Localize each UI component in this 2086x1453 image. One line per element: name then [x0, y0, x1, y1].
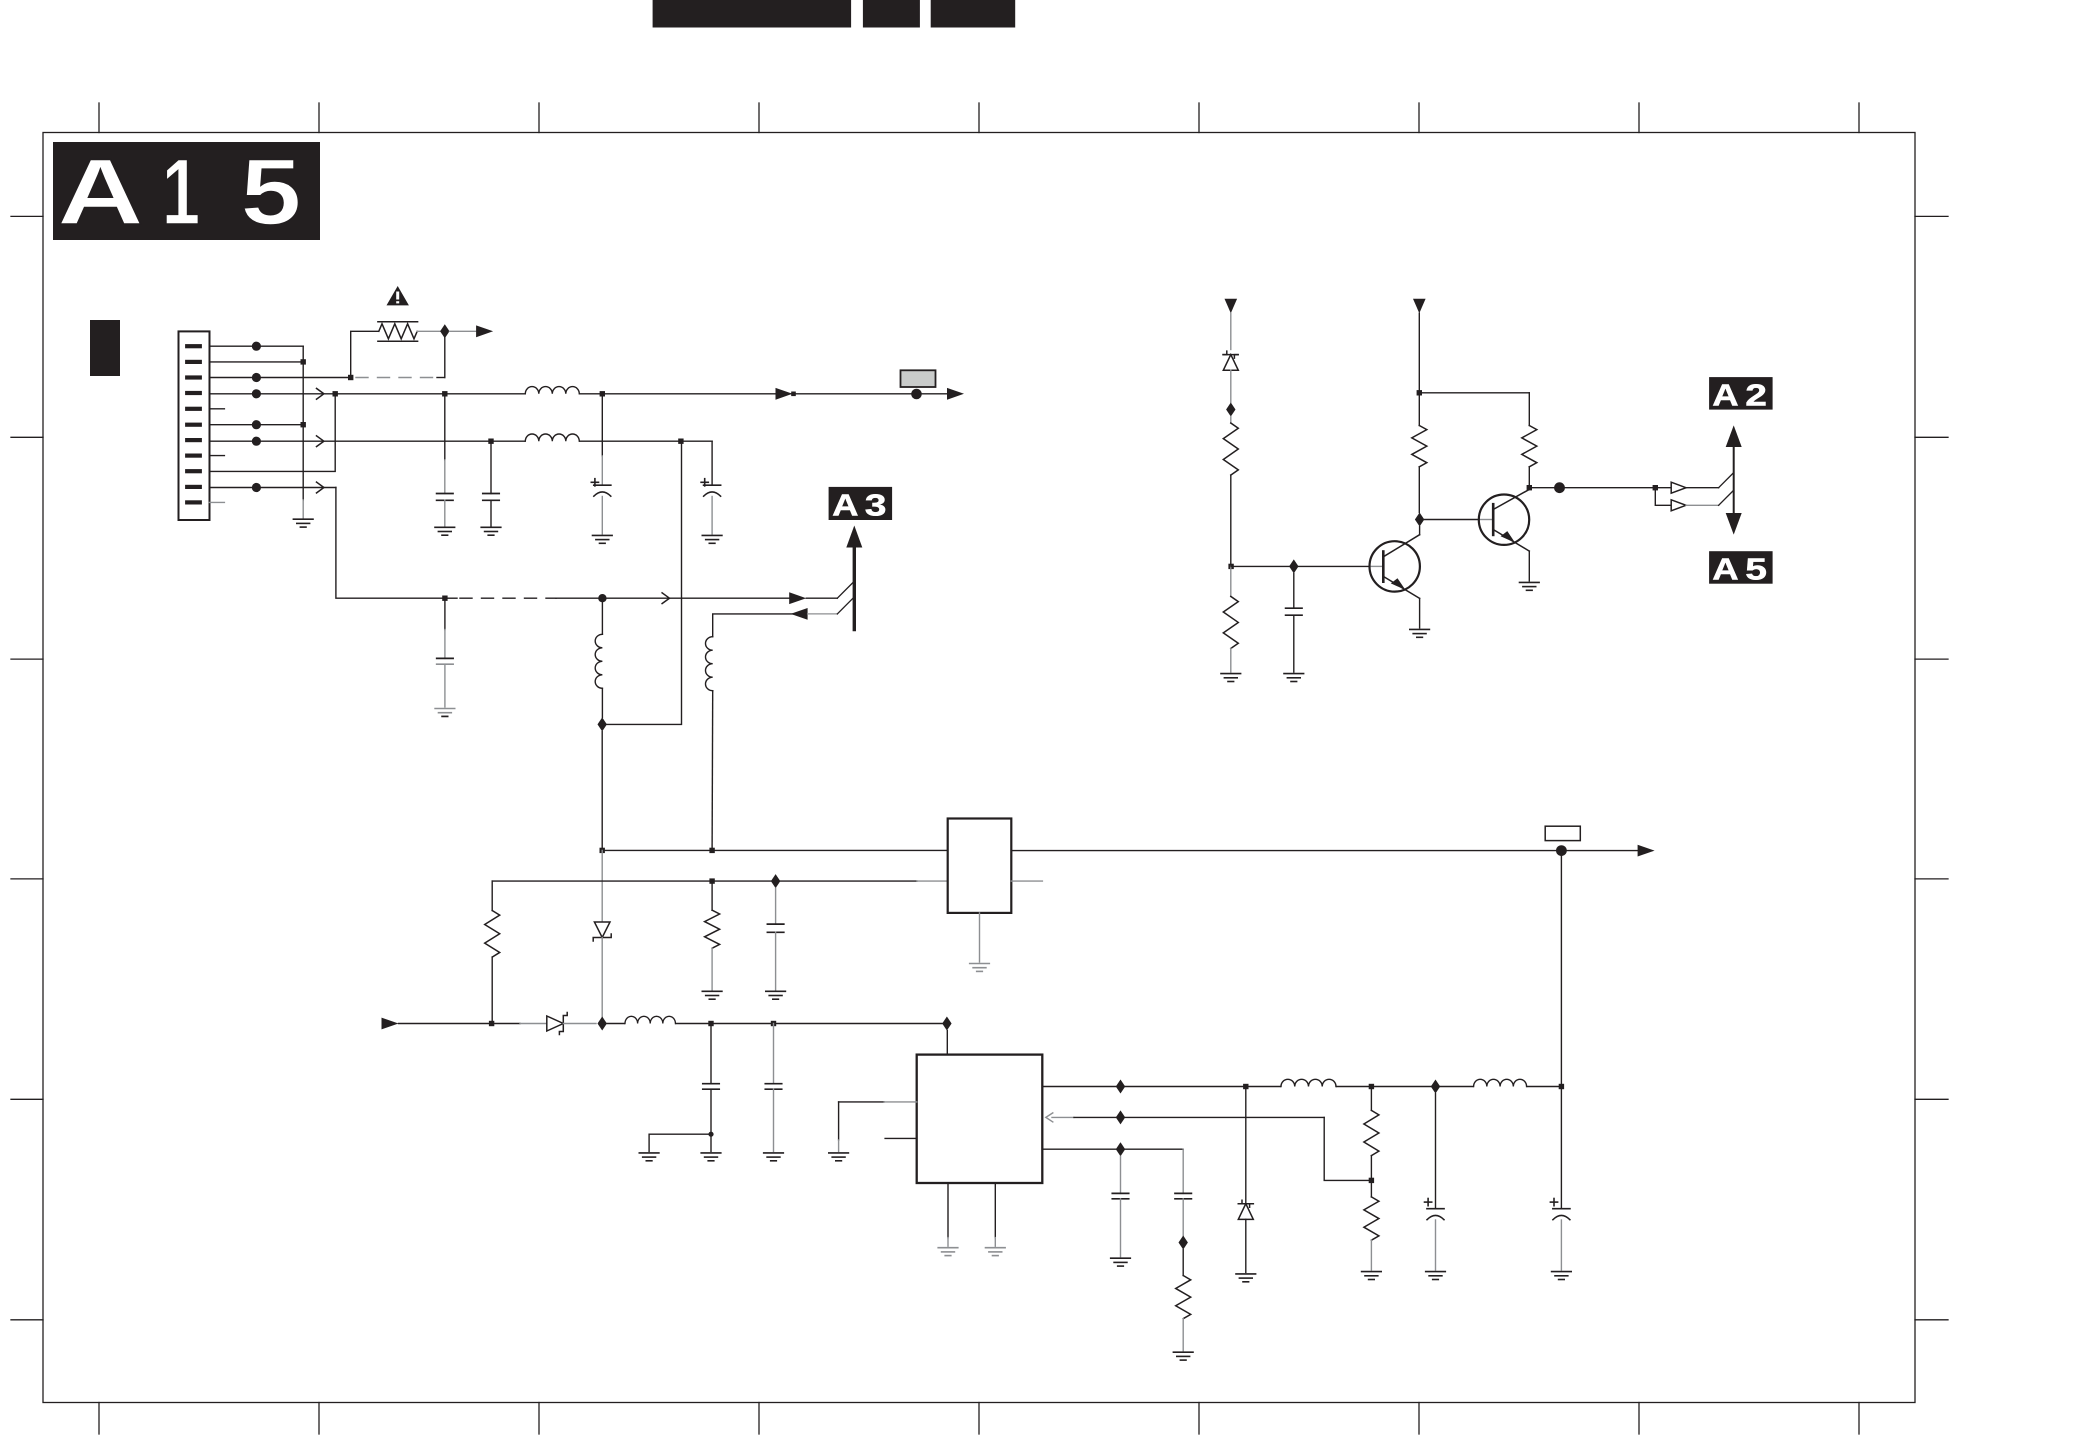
junction dot row A end	[911, 389, 922, 400]
arrow up to A3	[846, 526, 862, 548]
resistor R4	[1364, 1197, 1379, 1270]
wire U1 output drop	[1560, 851, 1562, 1087]
ground bus gray tail	[302, 500, 304, 518]
arrow row D to A3	[789, 592, 806, 604]
title bar redaction block 3	[931, 0, 1016, 28]
ground U2 lead1	[938, 1248, 958, 1256]
junction row B / C3	[488, 439, 493, 444]
wire pin5 stub	[210, 408, 225, 410]
arrow down to A5	[1726, 513, 1742, 535]
ground C10	[1552, 1272, 1572, 1280]
junction U1 pin2 row / R2	[709, 878, 714, 883]
ground Q2 emitter	[1520, 582, 1540, 590]
inductor L5	[625, 1022, 676, 1025]
ground C1	[435, 527, 455, 535]
U2 left pin with ground drop	[839, 1102, 917, 1152]
wire riser to fusible resistor left	[351, 331, 379, 377]
inductor L4 vertical	[706, 637, 713, 851]
resistor R9 Q2 collector load	[1522, 393, 1537, 488]
ground R5	[1173, 1352, 1193, 1360]
ground C13	[1284, 674, 1304, 682]
resistor R5	[1176, 1250, 1191, 1351]
border tick marks left	[11, 216, 43, 1319]
transistor Q1	[1370, 527, 1420, 628]
open arrow lower A2A5	[1671, 500, 1686, 511]
junction diamond C12/R5	[1179, 1236, 1188, 1250]
inductor L2 row B	[525, 440, 579, 443]
electrolytic C4 row B	[701, 479, 720, 534]
junction diamond pin1 a	[1116, 1080, 1125, 1094]
junction dot U1 output	[1556, 845, 1567, 856]
wire pin8 stub	[210, 455, 225, 457]
wire row B corner down to C4	[711, 441, 713, 485]
wire diamond to arrow	[450, 330, 477, 332]
lower branch wire	[1655, 488, 1671, 506]
ground C7 left	[639, 1153, 659, 1161]
arrow fusible output	[476, 325, 493, 337]
wire lower to ramp	[1686, 504, 1719, 506]
fusible resistor R1	[378, 322, 418, 341]
junction row A arrow tip	[791, 392, 796, 397]
resistor R1b left drop	[485, 881, 500, 1023]
wire pin2	[210, 361, 304, 363]
capacitor C5 below dashed row	[437, 598, 453, 707]
wire riser dashed bypass to diamond	[444, 331, 446, 377]
electrolytic C9	[1425, 1094, 1445, 1271]
wire pin1 to ground bus	[210, 345, 304, 347]
junction dot row D / L3 chain	[598, 594, 606, 602]
junction diamond bottom line	[598, 1017, 607, 1031]
ground U2 lead2	[986, 1248, 1006, 1256]
A3 bus bar	[853, 548, 856, 630]
ground Q1 emitter	[1410, 629, 1430, 637]
U1 right NC stub	[1011, 880, 1042, 882]
junction dot collector out	[1554, 482, 1565, 493]
border tick marks top	[99, 103, 1859, 133]
ground C11	[1111, 1258, 1131, 1266]
wire pin4 row A	[210, 393, 948, 395]
junction row A / pin9 riser	[333, 391, 338, 396]
wire V2 to junction	[1418, 313, 1420, 393]
junction dot pin3	[252, 373, 261, 382]
Q2 collector output wire	[1529, 487, 1671, 489]
transistor Q2	[1479, 489, 1530, 581]
junction rail / R2 chain	[709, 848, 714, 853]
A2 label box	[1709, 377, 1773, 413]
junction row B / link riser	[678, 439, 683, 444]
wire diamond to L5	[607, 1023, 625, 1025]
capacitor C3 row B	[483, 441, 499, 526]
junction diamond fusible out	[440, 324, 449, 338]
junction pin2/ground bus	[301, 359, 306, 364]
connector J1 body	[179, 331, 210, 520]
junction dot pin7	[252, 437, 261, 446]
ground C2	[593, 535, 613, 543]
ramp diagonal lower	[1719, 490, 1734, 505]
U2 pin2 feedback line	[1046, 1113, 1372, 1181]
wire V1 to zener D4	[1230, 313, 1232, 349]
capacitor C6	[767, 888, 783, 990]
ground R2	[702, 991, 722, 999]
Q2 base wire	[1424, 519, 1492, 521]
svg-text:5: 5	[1745, 552, 1767, 586]
junction dot pin4	[252, 389, 261, 398]
ground C8	[764, 1153, 784, 1161]
schottky diode D2	[547, 1013, 567, 1035]
ramp diagonal upper A3	[837, 581, 854, 598]
ground C6	[766, 991, 786, 999]
U2 output pin1 line	[1042, 1086, 1561, 1088]
inductor L6	[1281, 1085, 1336, 1088]
wire pin11 stub	[210, 501, 225, 503]
ground U2 left pin	[829, 1153, 849, 1161]
chevron row B	[317, 436, 324, 447]
arrow U1 output	[1638, 845, 1655, 857]
electrolytic C10	[1550, 1087, 1570, 1271]
junction pin1 / zener D3	[1243, 1084, 1248, 1089]
chevron row A	[317, 388, 324, 399]
supply arrow V1	[1225, 299, 1238, 313]
inductor L3 vertical	[595, 598, 602, 717]
ground C4	[702, 535, 722, 543]
junction row A / C1	[442, 391, 447, 396]
junction dashed row / C5	[442, 596, 447, 601]
electrolytic C2 row A	[591, 394, 610, 534]
wire schottky to diamond	[563, 1023, 596, 1025]
resistor R2 drop	[705, 881, 720, 990]
svg-text:2: 2	[1745, 378, 1767, 412]
U2 bottom lead 1	[947, 1183, 949, 1246]
junction R3/R4	[1369, 1178, 1374, 1183]
title bar redaction block 1	[653, 0, 852, 28]
wire pin3 to fusible resistor node	[210, 377, 351, 379]
A3 return wire	[713, 614, 806, 637]
junction diamond L3 bottom	[598, 717, 607, 731]
wire row D arrow to ramp	[806, 597, 837, 599]
junction diamond pin3	[1116, 1142, 1125, 1156]
junction bottom line / C7	[708, 1021, 713, 1026]
capacitor C1 row A	[437, 394, 453, 526]
U1 ground lead	[979, 913, 981, 962]
ground connector bus	[293, 519, 313, 527]
warning triangle symbol	[387, 286, 409, 305]
wire pin6	[210, 424, 304, 426]
open arrow upper A2A5	[1671, 482, 1686, 493]
junction pin6/ground bus	[301, 422, 306, 427]
ground D3	[1236, 1274, 1256, 1282]
capacitor C12 with resistor R5	[1175, 1149, 1191, 1236]
ground C5	[435, 709, 455, 717]
resistor R7	[1223, 566, 1238, 672]
capacitor C7	[649, 1024, 719, 1152]
ground R4	[1362, 1272, 1382, 1280]
junction pin1 / R3 chain	[1369, 1084, 1374, 1089]
junction dot pin10	[252, 483, 261, 492]
chevron row D	[662, 593, 669, 604]
ground U1	[970, 964, 990, 972]
small black marker rectangle	[90, 320, 120, 376]
wire A3 return gray tail	[808, 613, 838, 615]
wire collector rail	[1419, 392, 1529, 394]
capacitor C13	[1286, 573, 1302, 672]
gray label box row A	[901, 370, 936, 387]
svg-text:5: 5	[240, 139, 301, 245]
junction bottom line / R1b	[489, 1021, 494, 1026]
U2 left stub pin	[885, 1137, 917, 1139]
supply arrow V2	[1413, 299, 1426, 313]
zener diode D1	[593, 850, 611, 1023]
regulator U2 box	[917, 1055, 1043, 1183]
A5 label box	[1709, 551, 1773, 587]
junction diamond pin1 / C9	[1431, 1080, 1440, 1094]
junction dot pin1	[252, 342, 261, 351]
wire diamond down to rail	[601, 731, 603, 850]
stub line U1 pin2 row	[492, 880, 917, 882]
ramp diagonal upper	[1719, 473, 1734, 488]
junction row A / C2	[600, 391, 605, 396]
junction diamond base node / C13	[1289, 559, 1298, 573]
U1 output rail	[1011, 850, 1638, 852]
wire gray into schottky	[520, 1023, 547, 1025]
U2 pin3 line	[1042, 1148, 1183, 1150]
wire pin9 riser	[210, 394, 336, 472]
wire resistor to diamond	[417, 330, 440, 332]
junction collector out split	[1653, 485, 1658, 490]
arrow mid row A	[776, 388, 793, 400]
junction dot pin6	[252, 420, 261, 429]
svg-text:3: 3	[865, 488, 887, 522]
svg-text:A: A	[1712, 378, 1738, 413]
dashed bypass wire	[356, 377, 437, 379]
ground C3	[481, 527, 501, 535]
junction node pin3 riser	[348, 375, 353, 380]
zener diode D3	[1238, 1087, 1253, 1273]
connector J1 pins	[185, 344, 202, 504]
supply rail into regulator U1	[602, 849, 948, 851]
wire upper to ramp	[1686, 487, 1719, 489]
wire pin7 row B	[210, 440, 713, 442]
capacitor C8	[765, 1024, 781, 1152]
inductor L7	[1474, 1085, 1527, 1088]
regulator U1 box	[948, 819, 1012, 913]
junction rail / zener chain	[600, 848, 605, 853]
A2A5 bus line	[1733, 442, 1735, 518]
zener diode D4	[1223, 351, 1238, 402]
arrow row A end	[947, 388, 964, 400]
junction diamond U2 feed	[942, 1017, 951, 1031]
resistor R3	[1364, 1087, 1379, 1197]
wire pin10 drop to dashed row	[336, 488, 445, 599]
junction diamond pin2	[1116, 1110, 1125, 1124]
svg-text:A: A	[57, 139, 144, 244]
ground C7	[701, 1153, 721, 1161]
wire link diamond to riser	[607, 441, 682, 724]
svg-text:A: A	[832, 488, 858, 523]
A3 label box	[829, 487, 893, 523]
junction Q2 collector	[1527, 485, 1532, 490]
junction diamond U1 pin2 row / C6	[771, 874, 780, 888]
junction pin1 end	[1559, 1084, 1564, 1089]
input arrow bottom line	[382, 1018, 399, 1030]
junction R6/R7 base node	[1228, 564, 1233, 569]
wire dashed row solid right part	[556, 597, 790, 599]
bottom feed line	[399, 1023, 521, 1025]
ground R7	[1221, 674, 1241, 682]
resistor R8 Q1 collector load	[1412, 393, 1427, 513]
ramp diagonal lower A3	[837, 597, 854, 614]
arrow up to A2	[1726, 425, 1742, 447]
dashed wire row D	[460, 597, 556, 599]
junction V2 rail	[1417, 390, 1422, 395]
inductor L1 row A	[525, 393, 579, 396]
empty label box U1 output	[1545, 826, 1580, 840]
capacitor C11	[1112, 1156, 1128, 1257]
arrow A3 return	[791, 608, 808, 620]
junction diamond D4/R6	[1226, 403, 1235, 417]
svg-text:1: 1	[162, 141, 200, 245]
resistor R6	[1223, 417, 1238, 567]
Q1 base wire	[1231, 565, 1382, 567]
chevron row C	[317, 482, 324, 493]
bottom line to U2	[676, 1023, 947, 1025]
U2 bottom lead 2	[994, 1183, 996, 1246]
border tick marks right	[1915, 216, 1948, 1319]
wire dashed-row solid left part	[445, 597, 457, 599]
ground C9	[1426, 1272, 1446, 1280]
junction diamond Q1 collector / Q2 base	[1415, 513, 1424, 527]
wire drop to U2	[946, 1031, 948, 1055]
junction bottom line / C8	[771, 1021, 776, 1026]
sheet label A15	[53, 139, 320, 245]
wire pin10 row C	[210, 487, 336, 489]
border tick marks bottom	[99, 1403, 1859, 1435]
svg-text:A: A	[1712, 552, 1738, 587]
drawing border frame	[43, 133, 1915, 1403]
title bar redaction block 2	[863, 0, 920, 28]
